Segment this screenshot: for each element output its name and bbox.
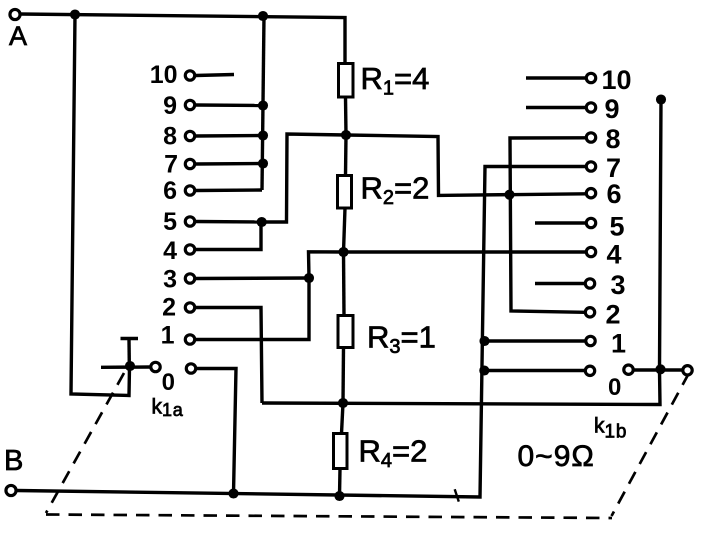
svg-text:5: 5 — [163, 208, 177, 236]
svg-text:7: 7 — [164, 151, 178, 179]
svg-text:4: 4 — [163, 237, 177, 265]
svg-text:6: 6 — [607, 179, 622, 209]
svg-text:R4=2: R4=2 — [359, 434, 428, 473]
svg-text:R1=4: R1=4 — [361, 61, 430, 100]
svg-text:3: 3 — [163, 266, 177, 294]
svg-text:2: 2 — [162, 294, 176, 322]
svg-text:5: 5 — [610, 212, 625, 242]
svg-text:6: 6 — [163, 177, 177, 205]
svg-text:1: 1 — [161, 322, 175, 350]
svg-text:10: 10 — [150, 61, 178, 89]
svg-text:R2=2: R2=2 — [361, 171, 430, 210]
svg-text:0~9Ω: 0~9Ω — [518, 440, 595, 473]
svg-text:k1a: k1a — [152, 396, 184, 421]
svg-text:9: 9 — [605, 94, 620, 124]
svg-text:8: 8 — [606, 124, 621, 154]
svg-text:0: 0 — [608, 374, 621, 401]
svg-text:3: 3 — [611, 270, 626, 300]
svg-text:R3=1: R3=1 — [367, 320, 436, 359]
svg-text:1: 1 — [611, 329, 626, 359]
svg-text:B: B — [4, 445, 23, 477]
svg-text:8: 8 — [163, 123, 177, 151]
svg-text:A: A — [9, 21, 27, 51]
svg-text:10: 10 — [602, 65, 632, 95]
svg-text:0: 0 — [162, 369, 175, 396]
svg-text:4: 4 — [607, 240, 622, 270]
svg-text:2: 2 — [606, 300, 621, 330]
svg-text:9: 9 — [163, 92, 177, 120]
